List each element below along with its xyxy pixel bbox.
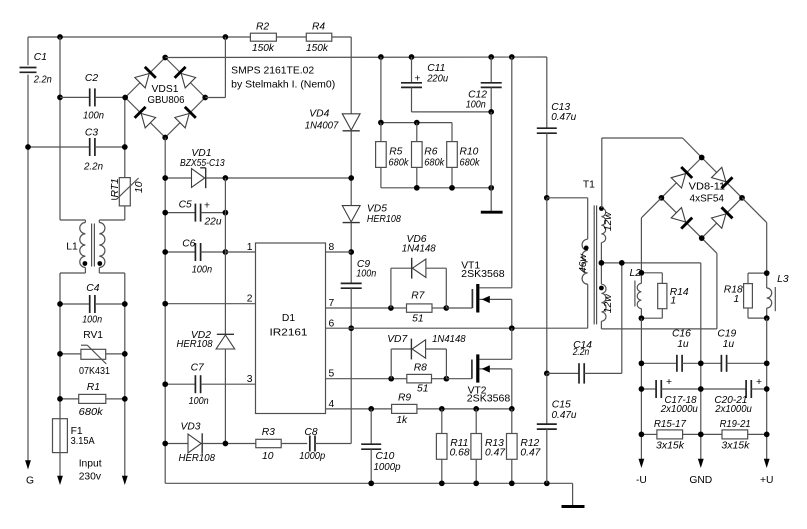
svg-text:C15: C15 [552, 400, 571, 411]
svg-text:R4: R4 [312, 22, 325, 33]
bridge rectifier VDS1 GBU806 [125, 58, 165, 98]
capacitor C17-18 2x1000u [641, 388, 656, 390]
svg-text:by Stelmakh I. (Nem0): by Stelmakh I. (Nem0) [231, 79, 335, 90]
svg-text:R5: R5 [389, 147, 402, 158]
svg-text:VD8-11: VD8-11 [689, 182, 726, 193]
svg-text:BZX55-C13: BZX55-C13 [180, 158, 225, 169]
VDS1 diode bottom-right [175, 114, 189, 128]
wire +U rail [766, 318, 768, 459]
svg-text:1000p: 1000p [374, 462, 401, 473]
svg-text:0.47: 0.47 [520, 448, 541, 459]
capacitor C4 100n [60, 303, 90, 305]
node C3 right [122, 144, 128, 150]
svg-text:1: 1 [670, 295, 676, 306]
resistor R15-17 3x15k [641, 433, 657, 435]
svg-text:1u: 1u [677, 339, 689, 350]
capacitor C16 1u [641, 362, 677, 364]
T1 secondary winding upper 12w [601, 208, 605, 242]
svg-text:L3: L3 [777, 274, 789, 285]
wire AC line N vertical [59, 37, 61, 220]
resistor R5 680k [380, 123, 382, 142]
wire pin2 to COM [165, 303, 255, 305]
svg-text:1000p: 1000p [299, 451, 325, 462]
svg-text:R1: R1 [87, 382, 100, 393]
zener VD1 BZX55-C13 [165, 177, 191, 179]
capacitor C10 1000p [370, 409, 372, 444]
svg-text:C7: C7 [191, 363, 205, 374]
capacitor C3 2.2n [28, 146, 90, 148]
VD8-11 diode left-top [671, 174, 685, 188]
svg-text:0.47u: 0.47u [551, 112, 576, 123]
svg-text:VD3: VD3 [181, 422, 201, 433]
arrow output +U [764, 459, 770, 468]
svg-text:G: G [26, 475, 34, 486]
svg-text:SMPS 2161TE.02: SMPS 2161TE.02 [231, 66, 314, 77]
T1 core [593, 205, 595, 324]
wire upper winding to bridge top [601, 138, 603, 208]
VD8-11 diode bottom-right [712, 214, 726, 228]
svg-text:150k: 150k [252, 43, 275, 54]
wire divider mid vertical [546, 198, 548, 374]
T1 primary winding 46w [582, 239, 588, 284]
svg-text:C8: C8 [304, 427, 317, 438]
svg-text:1u: 1u [723, 339, 735, 350]
svg-text:3x15k: 3x15k [721, 440, 750, 451]
capacitor C13 0.47u [546, 57, 548, 128]
svg-text:100n: 100n [466, 99, 486, 110]
resistor R3 10 [256, 439, 281, 447]
wire R3 to C8 [281, 443, 307, 445]
wire mains column right [124, 273, 126, 477]
wire VT2 source to sense row [511, 369, 513, 409]
wire -U rail [640, 318, 642, 459]
wire COM rail (rectified minus) [164, 138, 166, 484]
svg-text:RV1: RV1 [83, 330, 103, 341]
svg-text:HER108: HER108 [179, 453, 216, 464]
wire +310V rail [165, 56, 547, 59]
wire startup feed vertical [350, 37, 352, 114]
svg-text:HER108: HER108 [367, 214, 401, 225]
node pin8 / VB [348, 249, 354, 255]
svg-text:51: 51 [417, 384, 428, 395]
earth stub half-bridge [490, 188, 492, 212]
svg-text:C3: C3 [85, 128, 98, 139]
wire C9 to C8 row [350, 288, 352, 443]
wire centre tap rail to GND [601, 262, 700, 264]
capacitor C11 220u [411, 57, 413, 83]
wire VCC rail vertical [224, 178, 226, 334]
svg-text:C5: C5 [179, 200, 192, 211]
capacitor C14 2.2n (Y-cap to secondary GND) [547, 372, 579, 374]
arrow mains input right [122, 476, 128, 485]
wire C8 to VS vertical [315, 443, 351, 445]
wire VD4 to VD1 node [350, 131, 352, 206]
VD8-11 diode left-bottom [671, 208, 685, 222]
svg-text:R6: R6 [424, 147, 437, 158]
svg-text:680k: 680k [424, 158, 445, 169]
capacitor C20-21 2x1000u [701, 388, 746, 390]
svg-text:C4: C4 [86, 283, 99, 294]
resistor R6 680k [416, 123, 418, 142]
L3 core [774, 287, 776, 311]
svg-text:R3: R3 [262, 427, 275, 438]
svg-text:0.68: 0.68 [450, 448, 470, 459]
svg-text:10: 10 [134, 181, 145, 193]
capacitor C6 100n [165, 251, 195, 253]
svg-text:150k: 150k [306, 43, 329, 54]
VD8-11 diode top-right [712, 167, 726, 181]
svg-text:Input: Input [79, 459, 102, 470]
capacitor C1 [27, 37, 29, 65]
wire VD2 anode down to VD3 row [224, 349, 226, 444]
svg-text:VDS1: VDS1 [152, 84, 179, 95]
svg-text:R10: R10 [460, 147, 479, 158]
resistor R14 1 [641, 272, 662, 274]
svg-text:3x15k: 3x15k [656, 440, 685, 451]
svg-text:+: + [666, 377, 672, 388]
diode VD3 HER108 [165, 443, 188, 445]
resistor R2 [250, 33, 276, 41]
VDS1 diode bottom-left [141, 114, 155, 128]
svg-text:C2: C2 [85, 73, 98, 84]
L1 core [91, 224, 93, 267]
wire C12 node to bleeder bus [490, 112, 492, 188]
node C3 left [25, 144, 31, 150]
wire pin7 HO [326, 307, 391, 309]
svg-text:2.2n: 2.2n [33, 75, 52, 86]
svg-text:+U: +U [760, 475, 773, 486]
capacitor C9 100n (bootstrap) [341, 282, 362, 284]
svg-text:680k: 680k [389, 158, 410, 169]
resistor R18 1 [748, 272, 767, 274]
resistor R9 1k [392, 404, 417, 413]
svg-text:2.2n: 2.2n [83, 162, 103, 173]
svg-text:1: 1 [247, 242, 253, 253]
wire lower winding to bridge bottom [600, 321, 602, 329]
capacitor C5 22u [165, 212, 195, 214]
earth symbol primary [572, 483, 574, 506]
svg-text:12w: 12w [603, 294, 614, 313]
wire VD5 to C9 [350, 223, 352, 284]
diode VD6 1N4148 (bypass R7) [390, 268, 392, 308]
svg-text:2x1000u: 2x1000u [660, 404, 698, 415]
node pin6 / VS [348, 325, 354, 331]
svg-text:1N4148: 1N4148 [402, 243, 436, 254]
svg-text:100n: 100n [189, 396, 209, 407]
svg-text:100n: 100n [83, 111, 104, 122]
resistor R7 51 [407, 304, 433, 312]
svg-text:230v: 230v [79, 471, 102, 482]
svg-text:IR2161: IR2161 [270, 327, 308, 338]
resistors R5 R6 R10 bleeder network [380, 57, 382, 123]
arrow output GND [698, 459, 704, 468]
thermistor RT1 10 [119, 178, 130, 206]
svg-text:46w: 46w [578, 254, 589, 273]
svg-text:220u: 220u [426, 73, 448, 84]
svg-text:8: 8 [329, 242, 335, 253]
fuse F1 3.15A [53, 419, 68, 453]
svg-text:0.47: 0.47 [485, 448, 506, 459]
diode VD2 HER108 (charge pump) [217, 333, 234, 335]
wire R8 to VT2 gate [446, 378, 472, 380]
L2 core [634, 281, 636, 307]
wire bleeder bottom bus [381, 187, 491, 189]
wire pin5 LO [326, 378, 392, 380]
VDS1 diode left-top [135, 74, 149, 88]
svg-text:R9: R9 [398, 393, 411, 404]
svg-text:1k: 1k [396, 415, 408, 426]
bridge rectifier VD8-11 4xSF54 [661, 158, 701, 198]
svg-text:10: 10 [262, 451, 274, 462]
arrow mains input left [57, 476, 63, 485]
node C2 left [57, 95, 63, 101]
svg-text:GND: GND [689, 475, 712, 486]
svg-text:100n: 100n [356, 269, 376, 280]
wire VT2 drain to midpoint [511, 328, 513, 359]
capacitor C2 100n [60, 96, 90, 98]
resistor R4 [306, 33, 332, 41]
wire primary bottom lead [587, 284, 589, 328]
diode VD4 1N4007 [342, 114, 360, 130]
L1 phase dots [83, 261, 88, 266]
VDS1 nodes [162, 55, 168, 61]
wire mains column left [59, 273, 61, 419]
svg-text:12w: 12w [603, 212, 614, 231]
resistor R10 680k [451, 123, 453, 142]
wire pin6 VS / half-bridge midpoint [326, 327, 588, 329]
svg-text:+: + [415, 74, 421, 85]
wire RT1 to L1 [124, 206, 126, 220]
wire bridge right to AC line [205, 97, 225, 99]
arrow G terminal [25, 460, 31, 469]
svg-text:VD4: VD4 [309, 109, 329, 120]
wire pin1 VCC [225, 251, 255, 253]
capacitor C8 1000p [309, 436, 311, 452]
svg-text:7: 7 [329, 298, 335, 309]
wire pin4 CS row [326, 408, 392, 410]
svg-text:4xSF54: 4xSF54 [690, 194, 725, 205]
svg-text:VD7: VD7 [387, 334, 408, 345]
svg-text:R19-21: R19-21 [720, 419, 751, 430]
resistor R1 680k [60, 398, 79, 400]
wire bridge right to L3 [742, 198, 767, 223]
svg-text:C1: C1 [34, 52, 47, 63]
svg-text:T1: T1 [583, 180, 595, 191]
svg-text:2x1000u: 2x1000u [714, 404, 752, 415]
resistor R8 51 [407, 374, 432, 383]
wire VT1 source to midpoint [511, 299, 513, 328]
svg-text:680k: 680k [460, 158, 481, 169]
svg-text:2: 2 [247, 294, 253, 305]
VD8-11 nodes [699, 155, 705, 161]
wire centre tap join [600, 243, 602, 285]
svg-text:100n: 100n [82, 314, 102, 325]
wire earth line G [27, 147, 29, 461]
svg-text:1N4148: 1N4148 [432, 334, 466, 345]
svg-text:22u: 22u [204, 217, 222, 228]
svg-text:R2: R2 [256, 22, 269, 33]
wire pin8 to VB node [326, 251, 352, 253]
svg-text:2.2n: 2.2n [572, 347, 590, 358]
capacitor C15 0.47u [546, 373, 548, 424]
T1 secondary winding lower 12w [601, 284, 606, 321]
wire primary top lead [547, 197, 588, 199]
svg-text:C10: C10 [376, 451, 395, 462]
wire primary ground rail [165, 482, 572, 484]
node top-rail / C1 [57, 34, 63, 40]
varistor RV1 07K431 [60, 353, 81, 355]
resistor R12 0.47 [511, 409, 513, 434]
svg-text:C16: C16 [672, 328, 691, 339]
svg-text:+: + [204, 201, 210, 212]
svg-text:07K431: 07K431 [79, 366, 110, 377]
svg-text:-U: -U [636, 475, 647, 486]
svg-text:3: 3 [247, 374, 253, 385]
wire bridge-left to RT1 [124, 97, 126, 177]
svg-text:1N4007: 1N4007 [305, 120, 340, 131]
svg-text:2SK3568: 2SK3568 [467, 394, 511, 405]
capacitor C12 100n [490, 57, 492, 83]
svg-text:C19: C19 [717, 328, 736, 339]
svg-text:51: 51 [412, 313, 423, 324]
svg-text:1: 1 [734, 294, 740, 305]
svg-text:100n: 100n [192, 265, 213, 276]
svg-text:0.47u: 0.47u [552, 410, 577, 421]
resistor R13 0.47 [475, 409, 477, 434]
svg-text:RT1: RT1 [110, 178, 121, 197]
svg-text:R8: R8 [414, 363, 427, 374]
svg-text:+: + [756, 377, 762, 388]
wire R7 to VT1 gate [446, 307, 472, 309]
wire C14 to centre tap [621, 263, 623, 374]
svg-text:2SK3568: 2SK3568 [461, 269, 505, 280]
IC D1 IR2161 [256, 243, 326, 414]
svg-text:R15-17: R15-17 [654, 419, 687, 430]
svg-text:D1: D1 [282, 313, 295, 324]
diode VD5 HER108 [342, 206, 360, 222]
svg-text:R7: R7 [411, 291, 425, 302]
svg-text:C6: C6 [182, 239, 195, 250]
wire AC line L (top rail) [28, 36, 250, 38]
svg-text:5: 5 [329, 369, 335, 380]
capacitor C19 1u [701, 362, 722, 364]
resistor R19-21 3x15k [701, 433, 722, 435]
arrow output -U [639, 459, 645, 468]
wire VT1 drain to +310V [511, 57, 513, 288]
svg-text:HER108: HER108 [177, 339, 213, 350]
svg-text:GBU806: GBU806 [148, 95, 185, 106]
svg-text:3.15A: 3.15A [71, 436, 95, 447]
capacitor C7 100n [165, 383, 195, 385]
VDS1 diode right-top [181, 74, 195, 88]
svg-text:L1: L1 [66, 242, 78, 253]
wire bridge left to L2 [641, 198, 661, 218]
resistor R11 0.68 [441, 409, 443, 434]
diode VD7 1N4148 (bypass R8) [390, 349, 392, 379]
svg-text:680k: 680k [79, 407, 104, 418]
